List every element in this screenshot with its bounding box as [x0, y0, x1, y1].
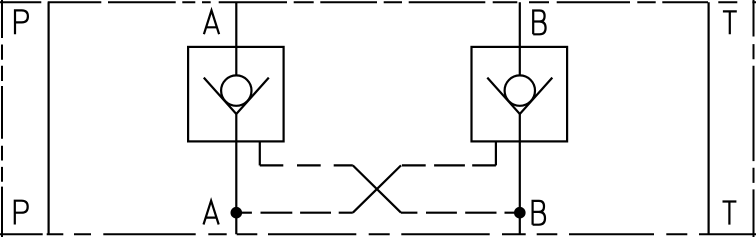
port line A lower segment [235, 114, 237, 234]
pilot port stub CV2 [495, 141, 497, 165]
junction node B [514, 207, 526, 219]
label T top [723, 11, 737, 34]
port line T [707, 2, 709, 234]
plate outline right edge [753, 0, 755, 237]
check valve ball CV2 [505, 75, 535, 105]
check valve seat CV1 [204, 78, 269, 114]
check valve ball CV1 [221, 75, 251, 105]
pilot line CV2 horizontal dashed run [401, 164, 496, 166]
label P bottom [15, 201, 28, 225]
pilot line CV1 diagonal to node B [353, 165, 401, 212]
port line B upper segment [519, 2, 521, 75]
label B bottom [533, 201, 545, 225]
plate outline top edge [0, 1, 756, 3]
port line A upper segment [235, 2, 237, 75]
valve envelope CV1 [188, 47, 284, 141]
plate outline bottom edge [0, 233, 756, 235]
valve envelope CV2 [472, 47, 568, 141]
pilot line CV2 diagonal to node A [353, 165, 401, 212]
port line B lower segment [519, 114, 521, 234]
label P top [15, 10, 28, 34]
pilot line CV1 horizontal dashed run [260, 164, 353, 166]
label A top [204, 10, 219, 34]
label B top [533, 11, 545, 35]
pilot line CV1 lower dashed run to node B [401, 212, 520, 214]
plate outline left edge [1, 0, 3, 237]
pilot line CV2 lower dashed run to node A [236, 212, 352, 214]
pilot port stub CV1 [259, 141, 261, 165]
check valve seat CV2 [487, 78, 552, 114]
label T bottom [723, 202, 737, 225]
junction node A [231, 207, 243, 219]
port line P [47, 2, 49, 234]
label A bottom [204, 201, 219, 225]
